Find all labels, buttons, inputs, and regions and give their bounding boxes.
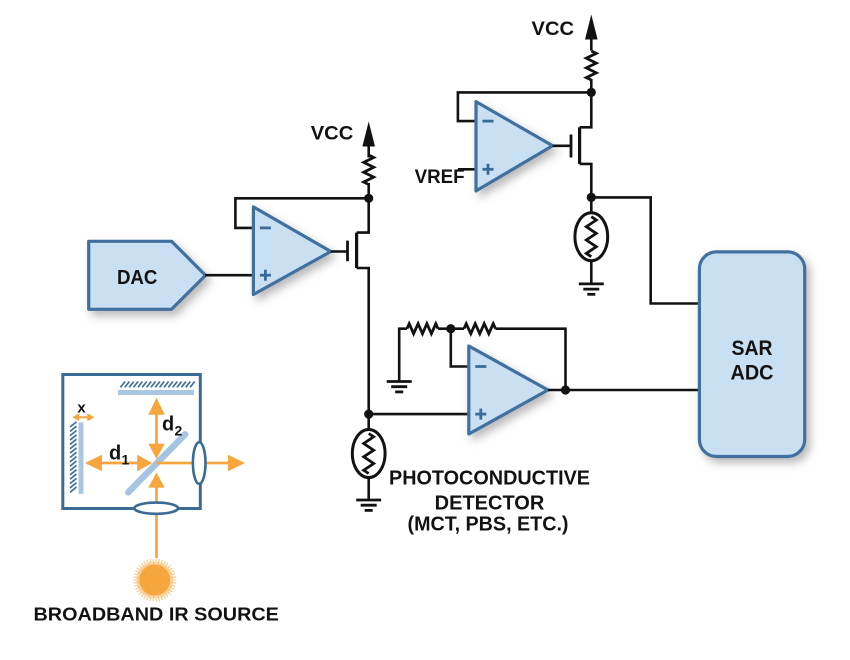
wire: PD2 bottom to ground	[590, 261, 593, 284]
photoconductive detector PD2	[575, 213, 608, 261]
transistor Q2 (NMOS source follower)	[553, 93, 592, 197]
svg-text:PHOTOCONDUCTIVE: PHOTOCONDUCTIVE	[389, 468, 590, 490]
wire: VREF to U3 non-inverting input	[458, 168, 476, 171]
svg-text:ADC: ADC	[731, 362, 774, 385]
svg-text:BROADBAND IR SOURCE: BROADBAND IR SOURCE	[34, 605, 279, 625]
svg-text:DAC: DAC	[117, 267, 158, 289]
ground GND2 (feedback network)	[387, 382, 412, 392]
photoconductive detector PD1	[352, 430, 385, 478]
svg-text:d: d	[109, 443, 121, 465]
collimating lens (right, on enclosure wall)	[193, 442, 206, 484]
SAR ADC block	[699, 252, 804, 457]
beam splitter	[128, 434, 185, 492]
svg-text:(MCT, PBS, ETC.): (MCT, PBS, ETC.)	[408, 514, 569, 536]
op-amp U2	[469, 346, 548, 434]
svg-text:VCC: VCC	[311, 124, 354, 145]
svg-text:x: x	[77, 400, 86, 417]
DAC block	[89, 241, 206, 309]
svg-text:1: 1	[122, 452, 130, 468]
wire: R2 to node N3 to R3	[438, 327, 464, 330]
wire: feedback from node N5 to U3 inverting input	[458, 92, 591, 121]
beam d2: splitter to fixed mirror (vertical)	[148, 398, 164, 459]
wire: DAC output to U1 non-inverting input	[205, 274, 253, 277]
svg-text:d: d	[162, 414, 174, 436]
broadband IR source (sun symbol)	[133, 559, 176, 602]
ground GND1 (below PD1)	[356, 500, 381, 510]
wire: U2 output to SAR ADC input	[548, 389, 699, 392]
svg-text:VCC: VCC	[532, 19, 575, 40]
wire: R1 bottom to node N1	[367, 183, 370, 198]
node N3: junction of R2, R3, U2 inverting input	[446, 324, 455, 333]
fixed mirror (top) bar	[118, 390, 194, 395]
wire: Q1 source to node N2	[367, 268, 370, 414]
beam d1: splitter to moving mirror (horizontal)	[85, 455, 152, 471]
node N6: junction of Q2 source, PD2, ADC wire	[587, 193, 596, 202]
wire: R3 to U2 output (feedback)	[496, 329, 566, 390]
wire: ground riser to R2 (feedback divider)	[399, 329, 407, 381]
svg-text:DETECTOR: DETECTOR	[435, 493, 545, 515]
node N4: U2 output / feedback junction	[561, 385, 570, 394]
wire: node N6 to SAR ADC input	[591, 197, 699, 303]
node N1: junction of R1, Q1 drain, feedback	[364, 194, 373, 203]
resistor R1 (left VCC pull-up)	[364, 155, 374, 185]
wire: R4 bottom to node N5	[590, 79, 593, 92]
VCC power arrow (right rail)	[585, 15, 598, 51]
svg-text:SAR: SAR	[732, 337, 773, 360]
resistor R4 (right VCC pull-up)	[586, 51, 596, 80]
wire: node N2 to detector PD1	[367, 414, 370, 430]
wire: feedback from node N1 to U1 inverting input	[235, 198, 368, 228]
ground GND3 (below PD2)	[579, 284, 604, 294]
svg-text:VREF: VREF	[415, 167, 465, 188]
node N2: junction of Q1 source, detector PD1, U2 + input	[364, 410, 373, 419]
wire: PD1 bottom to ground	[367, 478, 370, 501]
moving mirror (left) bar	[79, 422, 84, 494]
wire: node N3 to U2 inverting input	[451, 329, 469, 367]
resistor R3 (feedback)	[464, 324, 496, 334]
fixed mirror (top) hatching	[121, 382, 195, 388]
transistor Q1 (NMOS source follower)	[331, 199, 369, 270]
op-amp U1	[253, 207, 330, 295]
moving mirror (left) hatching	[70, 422, 77, 493]
interferometer enclosure	[63, 375, 201, 509]
wire: node N6 to detector PD2	[590, 197, 593, 214]
beam: splitter to output (right)	[157, 455, 246, 471]
node N5: junction of R4, Q2 drain, feedback	[587, 88, 596, 97]
condenser lens (bottom, on enclosure wall)	[134, 503, 178, 514]
x displacement double arrow	[72, 413, 94, 421]
beam: source up into splitter	[148, 473, 164, 558]
d2 label	[162, 414, 183, 439]
svg-text:2: 2	[175, 423, 183, 439]
wire: node N2 to U2 non-inverting input	[369, 413, 469, 416]
d1 label	[109, 443, 130, 468]
op-amp U3	[476, 102, 553, 191]
resistor R2 (gain network)	[407, 324, 438, 334]
VCC power arrow (left rail)	[362, 122, 375, 158]
